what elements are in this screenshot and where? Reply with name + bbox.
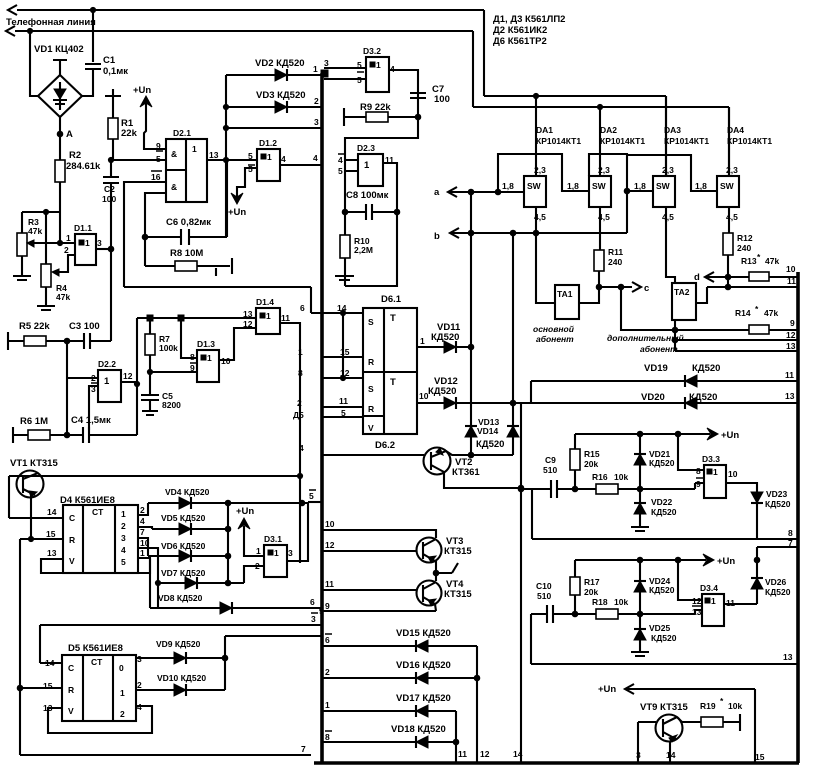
transformer TA1 основной абонент <box>533 285 579 344</box>
svg-text:T: T <box>390 313 396 324</box>
svg-text:2,3: 2,3 <box>726 165 738 175</box>
svg-text:2: 2 <box>91 373 96 383</box>
wire VT2 emitter tie <box>446 451 471 455</box>
wire D3.2 out <box>389 70 418 117</box>
svg-text:VD22: VD22 <box>651 497 673 507</box>
resistor R12 240 <box>723 207 753 277</box>
svg-text:C: C <box>68 663 74 673</box>
svg-text:C3 100: C3 100 <box>69 321 100 332</box>
node R5 C3 <box>64 338 70 344</box>
wire right box left edge <box>518 403 524 763</box>
svg-text:2,3: 2,3 <box>662 165 674 175</box>
diode VD25 КД520 <box>631 614 677 656</box>
wire D1.2 out net4 <box>280 153 322 165</box>
diode VD10 КД520 <box>136 658 225 696</box>
counter D4 К561ИЕ8 <box>46 495 138 573</box>
svg-text:13: 13 <box>47 548 57 558</box>
wire VD9 top rail <box>225 636 322 658</box>
trigger D6.1 D6.2 К561ТР2 <box>363 294 417 451</box>
frame bottom line <box>314 761 799 765</box>
svg-text:1: 1 <box>140 548 145 558</box>
svg-text:2: 2 <box>64 245 69 255</box>
svg-text:0,1мк: 0,1мк <box>103 66 128 77</box>
svg-text:абонент: абонент <box>640 344 678 354</box>
wire b to VD12 chain <box>512 233 514 403</box>
IC D2.1 <box>151 128 219 202</box>
svg-text:SW: SW <box>656 181 671 191</box>
node R6 C4 <box>64 432 70 438</box>
svg-text:C1: C1 <box>103 55 116 66</box>
wire net3 from D5 <box>40 614 322 663</box>
svg-text:1,8: 1,8 <box>695 181 707 191</box>
svg-text:1,8: 1,8 <box>567 181 579 191</box>
transistor VT2 КТ361 <box>424 448 481 479</box>
svg-text:11: 11 <box>787 276 796 286</box>
resistor R4 47k (trim) <box>41 212 70 306</box>
op-amp D1.4 <box>243 297 290 334</box>
svg-text:КР1014КТ1: КР1014КТ1 <box>664 136 709 146</box>
svg-text:14: 14 <box>45 658 55 668</box>
svg-text:5: 5 <box>341 408 346 418</box>
wire VT2 collector row <box>444 472 524 491</box>
wire D2.1 pin16 loop <box>124 182 166 287</box>
wire bottom left rail <box>20 744 311 755</box>
wire VT3 collector row <box>322 519 436 538</box>
node b line <box>434 228 627 242</box>
svg-text:D6.1: D6.1 <box>381 294 402 305</box>
svg-text:R11: R11 <box>608 247 623 257</box>
svg-text:VD25: VD25 <box>649 623 671 633</box>
svg-text:10: 10 <box>786 264 796 274</box>
svg-text:15: 15 <box>43 681 53 691</box>
svg-text:6: 6 <box>310 597 315 607</box>
svg-text:+Un: +Un <box>598 684 616 695</box>
wire DA1-DA2 link <box>498 154 589 192</box>
wire D6 pin12 <box>298 368 363 378</box>
wire D1.3 pin8 <box>181 318 197 358</box>
svg-text:12: 12 <box>692 596 702 606</box>
wire D1.4 out drop <box>280 323 300 563</box>
svg-text:1: 1 <box>420 336 425 346</box>
svg-text:1: 1 <box>85 238 90 248</box>
wire D2.1 pin low <box>145 193 166 237</box>
svg-text:4: 4 <box>338 155 343 165</box>
svg-text:14: 14 <box>666 750 676 760</box>
wire D2.1 pin5 <box>111 159 166 161</box>
resistor R6 1M <box>13 416 67 443</box>
svg-text:5: 5 <box>309 491 314 501</box>
svg-text:3: 3 <box>91 384 96 394</box>
node d line <box>694 272 749 290</box>
op-amp D1.3 <box>190 339 231 382</box>
svg-text:VD20: VD20 <box>641 392 665 403</box>
diode VD24 КД520 <box>634 560 675 614</box>
node bus top <box>313 58 329 77</box>
svg-text:R17: R17 <box>584 577 600 587</box>
diode VD5 КД520 <box>138 513 231 535</box>
svg-text:VD2 КД520: VD2 КД520 <box>255 58 305 69</box>
svg-text:D1.2: D1.2 <box>259 138 277 148</box>
wire DA3-DA4 link <box>627 155 717 191</box>
svg-text:DA2: DA2 <box>600 125 617 135</box>
op-amp D1.2 <box>257 138 286 181</box>
ground R3 <box>13 276 31 280</box>
pin strike marks <box>91 72 703 731</box>
svg-text:2,2М: 2,2М <box>354 245 373 255</box>
wire VD2 net riser <box>223 75 228 237</box>
svg-text:1: 1 <box>192 144 197 154</box>
wire net7 row <box>754 538 797 604</box>
wire D2.3 loop bottom <box>345 212 397 286</box>
wire D1.4 pin13 <box>246 317 256 319</box>
svg-text:S: S <box>368 317 374 327</box>
svg-text:4,5: 4,5 <box>726 212 738 222</box>
resistor R3 47k (trim) <box>17 212 42 276</box>
svg-text:VD1 КЦ402: VD1 КЦ402 <box>34 44 84 55</box>
svg-text:КД520: КД520 <box>476 439 504 450</box>
svg-text:11: 11 <box>785 370 794 380</box>
svg-text:47k: 47k <box>56 292 70 302</box>
wire VT3 base row <box>322 540 417 551</box>
resistor R10 2,2M <box>340 212 373 286</box>
capacitor C6 0,82мк <box>142 160 227 245</box>
svg-text:2: 2 <box>137 680 142 690</box>
wire diode OR join <box>227 503 229 583</box>
svg-text:1,8: 1,8 <box>502 181 514 191</box>
wire net13 row <box>531 614 797 664</box>
svg-text:3: 3 <box>311 614 316 624</box>
wire C3 riser <box>110 249 112 341</box>
diode VD2 КД520 <box>226 58 321 81</box>
wire D3.3 out <box>726 483 757 539</box>
svg-text:5: 5 <box>357 60 362 70</box>
svg-text:Д1, Д3 К561ЛП2: Д1, Д3 К561ЛП2 <box>493 14 565 25</box>
diode VD3 КД520 <box>226 90 321 113</box>
svg-text:D1.1: D1.1 <box>74 223 92 233</box>
svg-text:15: 15 <box>340 347 350 357</box>
svg-text:9: 9 <box>696 479 701 489</box>
wire D5 V loop <box>48 706 152 733</box>
wire loop bottom <box>124 287 311 313</box>
svg-text:КТ315: КТ315 <box>444 589 472 600</box>
wire D1.1 pin2 <box>59 255 75 272</box>
wire net4 row <box>299 443 424 455</box>
svg-text:VD8 КД520: VD8 КД520 <box>158 593 203 603</box>
svg-text:2: 2 <box>255 561 260 571</box>
svg-text:10k: 10k <box>614 597 628 607</box>
svg-text:VD3 КД520: VD3 КД520 <box>256 90 306 101</box>
svg-text:4: 4 <box>140 516 145 526</box>
svg-text:R: R <box>368 404 374 414</box>
wire D2.2 pin2 <box>67 377 98 379</box>
wire D3.1 pin2 <box>244 566 264 583</box>
svg-text:13: 13 <box>692 607 702 617</box>
capacitor C5 8200 <box>141 372 181 415</box>
svg-text:20k: 20k <box>584 459 598 469</box>
svg-text:D3.4: D3.4 <box>700 583 718 593</box>
wire D3.1 out <box>287 502 308 561</box>
svg-text:d: d <box>694 272 700 283</box>
svg-text:VD10 КД520: VD10 КД520 <box>157 673 206 683</box>
svg-text:47k: 47k <box>765 256 779 266</box>
wire abonent line13 <box>675 341 797 351</box>
resistor R19 10k <box>677 696 742 731</box>
svg-text:&: & <box>171 149 177 159</box>
svg-text:13: 13 <box>209 150 219 160</box>
svg-text:КД520: КД520 <box>651 507 677 517</box>
svg-text:ТА1: ТА1 <box>557 289 573 299</box>
svg-text:2: 2 <box>314 96 319 106</box>
svg-text:12: 12 <box>123 371 133 381</box>
wire VT4 base row <box>322 579 417 590</box>
svg-text:15: 15 <box>46 529 56 539</box>
node R7 bottom <box>147 369 152 374</box>
power +Un upper right <box>575 428 739 441</box>
svg-text:100: 100 <box>434 94 450 105</box>
resistor R14 47k <box>675 304 797 334</box>
wire D3.3 pin8 <box>678 434 704 470</box>
switch DA3 КР1014КТ1 <box>634 96 709 222</box>
svg-text:13: 13 <box>783 652 793 662</box>
svg-text:R12: R12 <box>737 233 753 243</box>
capacitor C2 100 <box>102 160 119 249</box>
svg-text:D3.2: D3.2 <box>363 46 381 56</box>
svg-text:5: 5 <box>357 75 362 85</box>
svg-text:КД520: КД520 <box>692 363 720 374</box>
svg-text:1: 1 <box>376 60 381 70</box>
svg-text:4: 4 <box>281 154 286 164</box>
diode VD14 КД520 <box>468 403 519 458</box>
svg-text:R: R <box>69 535 75 545</box>
node long left rail <box>297 473 302 478</box>
svg-text:1: 1 <box>364 160 370 171</box>
label IC types <box>493 14 565 47</box>
svg-text:Телефонная линия: Телефонная линия <box>6 17 96 28</box>
svg-text:CT: CT <box>91 657 103 667</box>
svg-text:510: 510 <box>537 591 551 601</box>
svg-text:10: 10 <box>325 519 335 529</box>
svg-text:4: 4 <box>121 545 126 555</box>
svg-text:10k: 10k <box>728 701 742 711</box>
svg-text:14: 14 <box>513 749 523 759</box>
diode VD13 <box>465 347 500 455</box>
svg-text:КД520: КД520 <box>428 386 456 397</box>
capacitor C10 510 <box>531 581 578 623</box>
svg-text:1: 1 <box>121 509 126 519</box>
svg-text:дополнительный: дополнительный <box>607 333 684 343</box>
svg-text:2: 2 <box>140 505 145 515</box>
wire telephone line lower <box>6 26 729 176</box>
svg-text:C6 0,82мк: C6 0,82мк <box>166 217 211 228</box>
wire R5 junction down <box>66 341 68 435</box>
wire D1.3 out <box>219 328 256 360</box>
svg-text:VD19: VD19 <box>644 363 668 374</box>
svg-text:1: 1 <box>313 64 318 74</box>
transistor VT1 КТ315 <box>10 458 58 542</box>
label bottom pins <box>458 749 523 759</box>
wire D6 pin11 <box>297 396 363 408</box>
svg-text:C9: C9 <box>545 455 556 465</box>
resistor R16 10k <box>575 472 704 494</box>
capacitor C9 510 <box>521 455 578 498</box>
svg-text:D6.2: D6.2 <box>375 440 395 451</box>
svg-text:R13: R13 <box>741 256 757 266</box>
svg-text:8: 8 <box>696 466 701 476</box>
diode VD8 КД520 <box>138 548 324 616</box>
wire long left rail <box>9 476 300 518</box>
wire abonent line12 <box>675 330 797 340</box>
svg-text:2: 2 <box>325 667 330 677</box>
svg-text:VD9 КД520: VD9 КД520 <box>156 639 201 649</box>
svg-text:ТА2: ТА2 <box>674 287 690 297</box>
wire D5 pin15 <box>20 687 62 689</box>
svg-text:3: 3 <box>314 117 319 127</box>
node VT3 VT4 emitter <box>433 561 458 581</box>
svg-text:R6 1М: R6 1М <box>20 416 48 427</box>
svg-text:1: 1 <box>66 233 71 243</box>
resistor R13 47k <box>741 252 797 281</box>
node R1 bottom <box>108 157 113 162</box>
svg-text:7: 7 <box>301 744 306 754</box>
transformer TA2 <box>666 207 707 330</box>
wire telephone line upper <box>8 5 666 176</box>
node c line <box>579 282 649 303</box>
switch DA2 КР1014КТ1 <box>567 107 645 222</box>
wire D6 pin15 <box>298 347 363 357</box>
capacitor C4 1,5мк <box>67 415 137 443</box>
svg-text:11: 11 <box>339 396 348 406</box>
node R4 top <box>43 209 48 214</box>
transistor VT9 КТ315 <box>636 702 688 763</box>
svg-text:6: 6 <box>300 303 305 313</box>
svg-text:7: 7 <box>140 527 145 537</box>
svg-text:Д6 К561ТР2: Д6 К561ТР2 <box>493 36 547 47</box>
svg-text:5: 5 <box>156 154 161 164</box>
svg-text:10: 10 <box>728 469 738 479</box>
power +Un arrow down <box>228 193 246 218</box>
svg-text:4: 4 <box>313 153 318 163</box>
svg-text:1: 1 <box>711 596 716 606</box>
resistor R5 22k <box>8 321 67 350</box>
svg-text:C4 1,5мк: C4 1,5мк <box>71 415 111 426</box>
node abonent junction <box>672 327 678 351</box>
svg-text:6: 6 <box>325 635 330 645</box>
svg-text:D3.3: D3.3 <box>702 454 720 464</box>
op-amp D3.2 <box>363 46 395 92</box>
svg-text:VD7 КД520: VD7 КД520 <box>161 568 206 578</box>
diode VD11 КД520 <box>417 322 474 353</box>
diode VD21 КД520 <box>634 434 675 489</box>
svg-text:&: & <box>171 182 177 192</box>
svg-text:5: 5 <box>121 557 126 567</box>
diode VD17 КД520 <box>322 693 456 763</box>
svg-text:1,8: 1,8 <box>634 181 646 191</box>
svg-text:13: 13 <box>785 391 795 401</box>
wire D3.2 pin feeds <box>324 60 366 85</box>
svg-text:2: 2 <box>297 398 302 408</box>
ground R10 <box>335 276 354 280</box>
label дополнительный абонент <box>607 333 684 354</box>
svg-text:C: C <box>69 513 75 523</box>
bus main vertical <box>320 73 324 762</box>
wire D4 pin15 <box>20 538 63 540</box>
svg-text:5: 5 <box>248 151 253 161</box>
svg-text:8: 8 <box>788 528 793 538</box>
svg-text:SW: SW <box>592 181 607 191</box>
svg-text:R: R <box>368 357 374 367</box>
wire DA1 bottom to TA1 <box>536 207 555 303</box>
svg-text:4: 4 <box>299 443 304 453</box>
svg-text:1: 1 <box>713 467 718 477</box>
svg-text:D5 К561ИЕ8: D5 К561ИЕ8 <box>68 643 123 654</box>
svg-text:D2.1: D2.1 <box>173 128 191 138</box>
svg-text:4,5: 4,5 <box>662 212 674 222</box>
op-amp D3.4 <box>692 583 735 626</box>
wire D4 V loop <box>41 559 150 573</box>
svg-text:C8 100мк: C8 100мк <box>346 190 389 201</box>
svg-text:9: 9 <box>325 601 330 611</box>
wire D6 link 14-12 <box>340 310 345 380</box>
wire net3 <box>226 117 321 128</box>
svg-text:КД520: КД520 <box>765 587 791 597</box>
counter D5 К561ИЕ8 <box>43 643 142 721</box>
IC D2.2 <box>91 359 133 402</box>
svg-text:3: 3 <box>121 533 126 543</box>
svg-text:15: 15 <box>755 752 765 762</box>
switch DA4 КР1014КТ1 <box>695 107 772 222</box>
svg-text:510: 510 <box>543 465 557 475</box>
svg-text:VD17 КД520: VD17 КД520 <box>396 693 451 704</box>
diode VD4 КД520 <box>138 487 308 515</box>
wire R reset rail <box>17 539 23 755</box>
diode VD12 КД520 <box>417 376 531 409</box>
wire D2.2 pin3 <box>89 386 98 430</box>
svg-text:1: 1 <box>298 347 303 357</box>
svg-text:R14: R14 <box>735 308 751 318</box>
svg-text:+Un: +Un <box>236 506 254 517</box>
svg-text:R8 10М: R8 10М <box>170 248 203 259</box>
svg-text:R19: R19 <box>700 701 716 711</box>
svg-text:284.61k: 284.61k <box>66 161 101 172</box>
svg-text:КТ315: КТ315 <box>444 546 472 557</box>
svg-text:10: 10 <box>419 391 429 401</box>
op-amp D3.1 <box>255 534 293 577</box>
svg-text:a: a <box>434 187 440 198</box>
svg-text:20k: 20k <box>584 587 598 597</box>
transistor VT3 КТ315 <box>417 536 473 563</box>
op-amp D3.3 <box>696 454 738 498</box>
wire D2.2 out riser <box>121 318 140 435</box>
wire D1.2 pins <box>237 151 257 197</box>
svg-text:VT1 КТ315: VT1 КТ315 <box>10 458 58 469</box>
svg-text:16: 16 <box>151 172 161 182</box>
wire D2.1 out13 <box>207 157 257 162</box>
wire TA2 line11 <box>707 276 797 287</box>
svg-text:VD14: VD14 <box>477 426 499 436</box>
svg-text:Д2 К561ИК2: Д2 К561ИК2 <box>493 25 547 36</box>
svg-text:2: 2 <box>121 521 126 531</box>
svg-text:1: 1 <box>266 311 271 321</box>
wire D2.3 out <box>383 163 397 212</box>
svg-text:22k: 22k <box>121 128 138 139</box>
svg-text:R18: R18 <box>592 597 608 607</box>
power +Un lower right <box>575 554 735 567</box>
svg-text:VD4 КД520: VD4 КД520 <box>165 487 210 497</box>
svg-text:VD15 КД520: VD15 КД520 <box>396 628 451 639</box>
svg-text:3: 3 <box>97 238 102 248</box>
svg-text:8: 8 <box>325 732 330 742</box>
svg-text:A: A <box>66 129 73 140</box>
